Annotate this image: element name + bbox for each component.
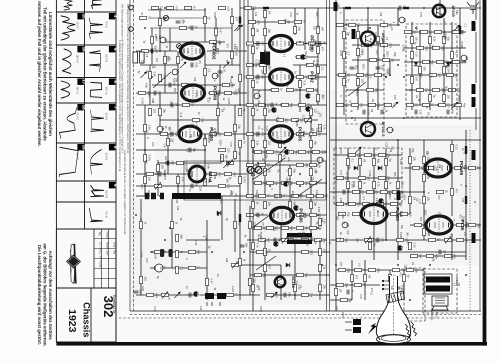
wire [334, 154, 402, 156]
svg-text:0.1: 0.1 [140, 12, 144, 16]
svg-text:95 V·Z: 95 V·Z [76, 87, 79, 95]
svg-text:Achtung! Vor dem Ausschalten d: Achtung! Vor dem Ausschalten des Gerätes [48, 250, 53, 340]
svg-text:470: 470 [370, 288, 373, 293]
potentiometer P1 [154, 183, 161, 190]
svg-text:220: 220 [257, 20, 261, 25]
resistor R23 [239, 74, 247, 81]
svg-text:PC86: PC86 [259, 232, 262, 239]
resistor R157 [343, 78, 351, 85]
oscillogram index 7 [109, 104, 118, 110]
resistor R208 [366, 190, 378, 195]
resistor R195 [347, 158, 355, 165]
svg-text:Gl1: Gl1 [186, 148, 189, 153]
svg-text:0.5: 0.5 [261, 222, 265, 226]
wire [453, 224, 481, 226]
resistor R209 [380, 190, 392, 196]
svg-text:4.7k: 4.7k [276, 117, 279, 122]
resistor R183 [416, 88, 428, 93]
svg-text:0.1: 0.1 [346, 52, 350, 56]
svg-text:160 V·Z: 160 V·Z [76, 55, 79, 64]
potentiometer wiper arrow [223, 62, 229, 68]
svg-text:Rö7: Rö7 [463, 165, 467, 171]
svg-text:2.2: 2.2 [207, 69, 211, 73]
margin note: Achtung warning (rotated) [37, 243, 53, 346]
svg-text:560: 560 [170, 161, 174, 166]
wire [250, 21, 302, 23]
wire [177, 93, 179, 134]
svg-text:1M: 1M [306, 242, 309, 245]
node 9 (numbered junction dot) [305, 106, 312, 111]
svg-text:2.2M: 2.2M [251, 147, 254, 153]
svg-text:3.3k: 3.3k [322, 265, 326, 271]
oscillogram trace 15 (left column) [62, 49, 71, 74]
svg-text:0.25: 0.25 [419, 12, 423, 18]
capacitor C16 [257, 75, 264, 80]
resistor R7 [159, 18, 167, 25]
svg-text:2.2M: 2.2M [141, 98, 144, 104]
wire junction [264, 50, 266, 52]
svg-text:H: H [393, 198, 397, 200]
svg-text:150: 150 [227, 184, 231, 189]
svg-text:6.8k: 6.8k [311, 130, 314, 135]
resistor R264 [256, 250, 268, 255]
connector block St1 [205, 293, 226, 306]
wire [423, 140, 425, 240]
picture tube funnel (CRT) [376, 276, 410, 343]
resistor R251 [176, 234, 184, 241]
svg-text:3: 3 [390, 129, 394, 131]
resistor R144 [380, 23, 392, 28]
capacitor C34 [284, 293, 291, 298]
wire junction [217, 214, 219, 216]
capacitor C12 [159, 172, 166, 177]
wire [221, 196, 223, 240]
svg-text:2M: 2M [255, 29, 259, 33]
resistor R201 [378, 176, 390, 182]
svg-text:25µ: 25µ [365, 73, 369, 78]
svg-text:9: 9 [308, 108, 312, 110]
wire junction [299, 89, 301, 91]
svg-text:Gl1: Gl1 [318, 113, 321, 118]
potentiometer P2 [226, 160, 233, 167]
oscillogram trace 14 (left column) [61, 16, 75, 40]
wire [247, 64, 270, 66]
node 13 (numbered junction dot) [193, 291, 200, 296]
resistor R204 [373, 181, 381, 188]
svg-text:0.47: 0.47 [374, 32, 377, 37]
wire junction [177, 185, 179, 187]
svg-text:10k: 10k [242, 75, 246, 80]
oscillogram index 15 [77, 13, 86, 19]
tube PL500 R&#246;5 [179, 126, 217, 142]
svg-text:0.5: 0.5 [452, 283, 455, 287]
svg-text:40p: 40p [376, 159, 380, 164]
antenna terminal socket [129, 27, 134, 32]
svg-text:560: 560 [355, 238, 358, 243]
svg-text:15k: 15k [224, 155, 228, 160]
svg-text:4.7k: 4.7k [195, 122, 198, 127]
resistor R93 [296, 132, 308, 136]
wire [201, 133, 247, 135]
trimmer pot Tr-b [255, 167, 262, 174]
resistor R231 [400, 212, 412, 218]
svg-text:150: 150 [446, 95, 450, 100]
node 3 (circled reference) [387, 127, 394, 133]
svg-text:25µ: 25µ [323, 238, 327, 243]
svg-text:470: 470 [275, 150, 279, 155]
wire [136, 92, 178, 94]
resistor R279 [354, 283, 366, 287]
resistor R9 [231, 16, 239, 23]
capacitor C30 [439, 250, 446, 255]
svg-text:4.7k: 4.7k [229, 142, 233, 148]
svg-text:2.2M: 2.2M [399, 159, 402, 165]
resistor R176 [436, 60, 448, 64]
resistor R113 [310, 168, 318, 175]
wire [280, 224, 282, 240]
resistor R137 [309, 226, 321, 230]
resistor R220 [454, 166, 466, 170]
resistor R1 [139, 16, 151, 20]
svg-text:10k: 10k [427, 232, 431, 237]
capacitor C14 [257, 41, 264, 46]
wire junction [377, 41, 379, 43]
svg-text:18p: 18p [257, 286, 261, 291]
resistor R223 [451, 144, 459, 151]
resistor R149 [380, 43, 392, 49]
svg-text:100: 100 [302, 115, 305, 120]
wire [406, 89, 457, 91]
oscillogram index 8 [109, 144, 118, 150]
svg-text:68k: 68k [307, 150, 311, 155]
svg-text:470: 470 [234, 17, 238, 22]
svg-text:0.5: 0.5 [316, 25, 319, 29]
resistor R125 [252, 201, 260, 208]
resistor R64 [296, 42, 308, 46]
svg-text:250V: 250V [147, 190, 151, 196]
wire [205, 64, 240, 66]
wire [419, 30, 421, 105]
potentiometer P6 [444, 237, 451, 244]
resistor R136 [296, 226, 308, 230]
wire [264, 240, 266, 300]
svg-text:1M: 1M [431, 45, 434, 48]
svg-text:12k: 12k [199, 306, 203, 311]
wire chassis boundary dashed [130, 314, 481, 316]
resistor R213 [362, 202, 374, 207]
wire [295, 56, 318, 58]
svg-text:1923: 1923 [66, 309, 78, 333]
svg-text:470: 470 [145, 258, 149, 263]
svg-text:18p: 18p [345, 238, 349, 243]
resistor R186 [429, 94, 437, 101]
resistor R210 [392, 190, 404, 196]
resistor R153 [343, 51, 351, 58]
svg-text:müssen auf jeden Fall und in g: müssen auf jeden Fall und in gleicher An… [37, 1, 42, 147]
svg-text:Rö 9: Rö 9 [435, 312, 439, 318]
svg-text:15: 15 [81, 14, 86, 19]
potentiometer wiper arrow [180, 62, 186, 68]
resistor R109 [309, 163, 321, 169]
wire [253, 227, 318, 229]
resistor R233 [456, 223, 468, 228]
coil L10 [459, 26, 461, 34]
resistor R91 [291, 118, 303, 123]
svg-text:250V: 250V [457, 95, 461, 101]
wire junction [357, 89, 359, 91]
svg-text:50µ: 50µ [263, 273, 267, 278]
resistor R35 [160, 132, 172, 138]
wire [294, 133, 327, 135]
svg-text:5.6k: 5.6k [255, 141, 259, 147]
trimmer pot Tr-a [247, 167, 254, 174]
svg-text:2.2M: 2.2M [401, 44, 404, 50]
svg-text:2M: 2M [419, 254, 423, 258]
wire junction [465, 274, 467, 276]
svg-text:470: 470 [175, 6, 179, 11]
resistor R174 [411, 51, 419, 58]
resistor R132 [319, 218, 327, 225]
wire [234, 199, 236, 252]
wire junction [252, 173, 254, 175]
EHT cage (dashed enclosure) [404, 268, 425, 321]
svg-text:100: 100 [402, 296, 405, 301]
svg-text:0.1: 0.1 [257, 126, 261, 130]
wire [347, 148, 349, 204]
resistor R141 [314, 238, 326, 243]
resistor R202 [347, 181, 355, 188]
wire center divider a [326, 0, 328, 311]
svg-text:6.8k: 6.8k [320, 218, 323, 223]
wire lower boundary dashed [119, 317, 470, 319]
svg-text:12k: 12k [254, 12, 258, 17]
resistor R71 [306, 63, 318, 68]
wire [247, 195, 327, 197]
wire junction [423, 7, 425, 9]
resistor R270 [264, 264, 272, 271]
resistor R199 [336, 176, 348, 181]
resistor R15 [177, 56, 185, 63]
resistor R115 [266, 181, 278, 186]
resistor R85 [298, 103, 310, 108]
svg-text:40 V·Z: 40 V·Z [76, 22, 79, 30]
node 2 (numbered junction dot) [397, 245, 404, 250]
svg-text:AF202 S: AF202 S [381, 122, 385, 137]
margin fine print column (rotated) [118, 4, 130, 235]
coil L5 [160, 193, 164, 200]
resistor R203 [359, 181, 367, 188]
node 4 (circled reference) [254, 93, 261, 99]
svg-text:0.5: 0.5 [369, 75, 372, 79]
node 5 (numbered junction dot) [293, 205, 300, 210]
svg-text:560: 560 [423, 221, 426, 226]
resistor R102 [286, 150, 298, 155]
svg-text:0.25: 0.25 [414, 52, 418, 58]
svg-text:10k: 10k [275, 181, 279, 186]
svg-text:PC86: PC86 [291, 191, 294, 198]
resistor R121 [274, 194, 286, 198]
svg-text:560: 560 [335, 216, 338, 221]
wire [336, 269, 424, 271]
svg-text:470: 470 [218, 172, 222, 177]
svg-text:250V: 250V [148, 91, 151, 97]
node 13 (circled reference) [399, 17, 406, 23]
resistor R257 [146, 293, 158, 299]
svg-text:560: 560 [406, 232, 409, 237]
coil L13 [239, 214, 241, 222]
svg-text:0.47: 0.47 [339, 170, 343, 176]
svg-text:11: 11 [286, 182, 290, 186]
resistor R108 [296, 163, 308, 168]
svg-text:470: 470 [163, 176, 166, 181]
wire [352, 44, 400, 46]
svg-text:18p: 18p [162, 109, 166, 114]
node 5 (circled reference) [172, 69, 179, 75]
wire [140, 199, 142, 295]
wire [330, 239, 481, 241]
svg-text:100: 100 [465, 238, 469, 243]
svg-text:125: 125 [322, 249, 326, 254]
svg-text:0.5: 0.5 [323, 150, 326, 154]
oscillogram trace 6 (right column) [90, 185, 103, 196]
resistor R84 [281, 103, 293, 108]
resistor R240 [456, 238, 468, 243]
resistor R167 [452, 30, 464, 36]
wire junction [264, 104, 266, 106]
wire [217, 93, 219, 134]
resistor R218 [423, 156, 431, 163]
svg-text:0.25: 0.25 [425, 46, 429, 52]
bottom border bar [56, 342, 487, 346]
module tag (black label) [472, 233, 476, 243]
coil L3 [145, 193, 150, 200]
wire [186, 239, 220, 241]
wire junction [397, 264, 399, 266]
tube PY88 Rö6 [189, 166, 217, 182]
svg-text:5.6k: 5.6k [194, 63, 198, 69]
wire [177, 51, 179, 93]
wire [250, 251, 330, 253]
wire center divider b [329, 0, 331, 311]
potentiometer wiper arrow [141, 72, 147, 78]
resistor R239 [428, 238, 440, 242]
svg-text:125: 125 [315, 128, 319, 133]
resistor R40 [218, 148, 230, 153]
svg-text:3: 3 [276, 243, 280, 245]
svg-text:12k: 12k [201, 118, 205, 123]
resistor R188 [406, 103, 418, 107]
resistor R36 [209, 132, 221, 137]
svg-text:190V: 190V [386, 70, 389, 76]
resistor R119 [246, 194, 258, 200]
svg-text:0.47: 0.47 [417, 199, 420, 204]
coil L2 [263, 7, 269, 9]
resistor R252 [176, 250, 184, 257]
svg-text:5 V·B: 5 V·B [105, 22, 108, 28]
svg-text:12k: 12k [425, 88, 429, 93]
svg-text:100: 100 [429, 30, 433, 35]
capacitor C5 [218, 69, 227, 73]
wire junction [389, 74, 391, 76]
wire [346, 89, 384, 91]
svg-text:2.2M: 2.2M [317, 207, 320, 213]
svg-text:15k: 15k [414, 37, 418, 42]
wire [465, 130, 467, 260]
wire [247, 76, 269, 78]
wire [343, 8, 345, 115]
svg-text:190V: 190V [259, 306, 263, 312]
oscillogram trace 18 (left column) [59, 147, 78, 176]
svg-text:0.25: 0.25 [229, 78, 232, 83]
resistor R234 [468, 223, 480, 229]
svg-text:250V: 250V [341, 312, 345, 318]
wire [136, 195, 150, 197]
capacitor C8 [171, 103, 178, 108]
svg-text:50µ: 50µ [375, 88, 379, 93]
svg-text:0.47: 0.47 [375, 50, 378, 55]
node 14 (circled reference) [461, 55, 468, 61]
resistor R241 [369, 242, 377, 249]
svg-text:0.5: 0.5 [309, 120, 312, 124]
resistor R90 [276, 118, 288, 123]
svg-text:10k: 10k [305, 181, 309, 186]
svg-text:220: 220 [361, 190, 365, 195]
wire junction [351, 117, 353, 119]
resistor R255 [206, 278, 214, 285]
svg-text:250V: 250V [203, 135, 206, 141]
wire junction [299, 185, 301, 187]
svg-text:PC86: PC86 [317, 158, 321, 165]
wire [247, 164, 318, 166]
wire [293, 89, 318, 91]
wire [177, 174, 179, 196]
svg-text:1M: 1M [371, 98, 374, 101]
svg-text:1M: 1M [338, 289, 342, 293]
resistor R112 [289, 168, 297, 175]
svg-text:15k: 15k [267, 202, 271, 207]
resistor R13 [141, 49, 153, 53]
tube PL36 R&#246;9 [426, 216, 468, 234]
damper stage enclosure box [184, 161, 326, 200]
svg-text:15k: 15k [400, 182, 404, 187]
resistor R191 [454, 103, 466, 108]
svg-text:4.7k: 4.7k [155, 293, 159, 299]
resistor R171 [416, 46, 428, 52]
wire [144, 105, 146, 196]
svg-text:19: 19 [81, 145, 86, 150]
resistor R22 [222, 83, 234, 88]
module tag (black label) [472, 21, 476, 31]
electrolytic capacitor C-in1 [133, 52, 138, 63]
svg-text:85 V·B: 85 V·B [105, 191, 108, 199]
resistor R89 [310, 108, 318, 115]
resistor R41 [239, 140, 247, 147]
CRT deflection yoke (hatched band) [386, 291, 405, 303]
oscillogram trace 17 (left column) [59, 107, 76, 138]
svg-text:150: 150 [399, 202, 403, 207]
wire [253, 119, 318, 121]
svg-text:1M: 1M [463, 232, 467, 236]
capacitor C1 [176, 19, 185, 25]
wire [397, 8, 399, 26]
svg-text:190V: 190V [462, 216, 465, 222]
resistor R221 [468, 166, 480, 170]
wire [411, 22, 413, 110]
node 9 (circled reference) [157, 126, 164, 132]
oscillogram index 16 [77, 46, 86, 52]
svg-text:5 V·B: 5 V·B [105, 212, 108, 218]
svg-text:30p: 30p [400, 225, 403, 230]
